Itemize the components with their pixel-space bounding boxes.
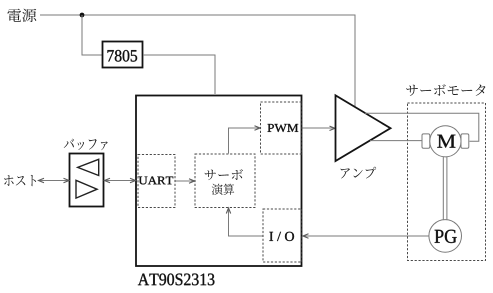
I/O block (dashed): [263, 209, 302, 262]
wire: I/O to servo computation (feedback): [229, 209, 263, 237]
label: ホスト (host): [4, 175, 36, 186]
wire: 7805 output to AT90S2313 Vcc: [143, 55, 215, 94]
wire: host <-> buffer (bidirectional): [39, 180, 70, 182]
wire: PWM -> amp: [303, 127, 335, 129]
wire: power rail from 電源 across to amp drop: [40, 15, 355, 107]
wire: amp output + wrap to motor right terminal: [365, 113, 479, 141]
servo motor unit (dashed enclosure): [408, 103, 486, 261]
PWM block (dashed): [261, 102, 303, 154]
buffer gate: receive (left-pointing triangle): [78, 159, 99, 175]
label: アンプ: [341, 167, 377, 179]
wire: servo computation -> PWM: [229, 128, 260, 154]
wire: buffer <-> UART (bidirectional): [104, 180, 136, 182]
regulator 7805: [103, 42, 143, 68]
label: AT90S2313: [138, 274, 215, 286]
motor left brush terminal: [422, 134, 430, 148]
MCU AT90S2313 box: [136, 96, 302, 267]
encoder PG: [429, 220, 462, 253]
buffer gate: transmit (right-pointing triangle): [76, 180, 97, 198]
servo computation block サーボ演算 (dashed): [195, 154, 255, 208]
shaft: motor to encoder (double line): [442, 157, 444, 221]
wire: amp output - to motor left terminal: [370, 140, 422, 142]
wire: UART -> servo computation: [176, 180, 195, 182]
motor right brush terminal: [461, 134, 469, 148]
label: サーボモータ (servo motor): [406, 84, 485, 96]
amplifier アンプ (triangle): [336, 95, 391, 161]
buffer box U1: [70, 154, 104, 207]
motor M: [430, 126, 461, 157]
UART block (dashed): [138, 155, 175, 208]
label: 電源 (power supply): [7, 9, 36, 22]
junction: power rail tap to regulator: [80, 13, 85, 18]
wire: PG feedback to I/O: [303, 235, 429, 237]
wire: junction down to 7805 input: [82, 15, 102, 55]
label: バッファ (buffer): [64, 139, 108, 151]
